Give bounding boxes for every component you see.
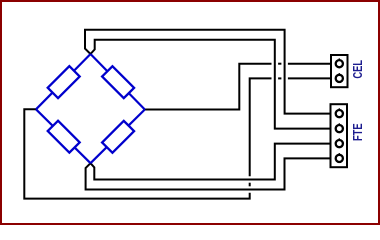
wire: bottom node to FTE pin3 (inner bottom run)	[91, 144, 331, 180]
wire: top node to FTE pin2 (inner top run)	[91, 40, 331, 129]
connector FTE pin 1	[336, 110, 343, 117]
svg-text:FTE: FTE	[352, 123, 366, 141]
connector FTE pin 2	[336, 125, 343, 132]
wire: bottom node to FTE pin4 (outer bottom run)	[86, 158, 330, 189]
connector FTE pin 3	[336, 140, 343, 147]
wire: x=250 vertical dash between bottom crossings	[249, 183, 251, 187]
wire: left node down and along bottom to x=250	[24, 109, 249, 198]
connector CEL pin 2	[336, 75, 343, 82]
wire: CEL pin1 dash between crossings	[278, 63, 281, 65]
svg-text:CEL: CEL	[352, 60, 366, 79]
connector FTE pin 1 tick	[339, 108, 340, 110]
resistor R1 (top-left arm)	[48, 66, 80, 98]
wire: CEL pin1 final segment into connector	[288, 63, 330, 65]
connector CEL pin 2 tick	[339, 73, 340, 75]
connector FTE pin 4	[336, 155, 343, 162]
resistor R3 (bottom-left arm)	[48, 121, 80, 153]
wire: top node to FTE pin1 (outer top run)	[85, 30, 330, 114]
wire: CEL pin2 final segment into connector	[288, 77, 330, 79]
wire: right node to CEL pin1 elbow	[145, 64, 272, 110]
connector FTE pin 3 tick	[339, 138, 340, 140]
connector FTE pin 4 tick	[339, 153, 340, 155]
connector FTE pin 2 tick	[339, 123, 340, 125]
connector CEL pin 1	[336, 60, 343, 67]
wire: CEL pin2 dash between crossings	[278, 77, 281, 79]
connector CEL body	[331, 55, 348, 87]
connector FTE body	[331, 104, 348, 167]
bridge edge top-left	[36, 54, 91, 109]
resistor R4 (bottom-right arm)	[102, 121, 134, 153]
bridge edge top-right	[91, 54, 145, 110]
connector CEL pin 1 tick	[339, 58, 340, 60]
wire: x=250 vertical up to CEL pin2 elbow and right	[250, 78, 272, 176]
resistor R2 (top-right arm)	[102, 66, 134, 98]
bridge edge bottom-right	[91, 110, 145, 164]
bridge edge bottom-left	[36, 109, 91, 163]
